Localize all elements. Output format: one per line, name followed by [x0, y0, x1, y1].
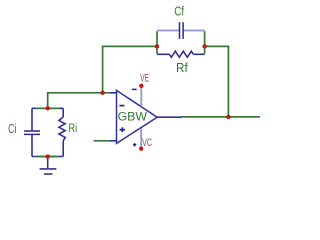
- svg-text:VC: VC: [142, 137, 152, 149]
- svg-text:VE: VE: [140, 73, 149, 85]
- svg-text:Ri: Ri: [69, 123, 78, 135]
- svg-text:Rf: Rf: [176, 60, 188, 75]
- svg-text:Cf: Cf: [174, 4, 184, 19]
- svg-text:Ci: Ci: [8, 122, 16, 136]
- svg-text:GBW: GBW: [118, 110, 148, 124]
